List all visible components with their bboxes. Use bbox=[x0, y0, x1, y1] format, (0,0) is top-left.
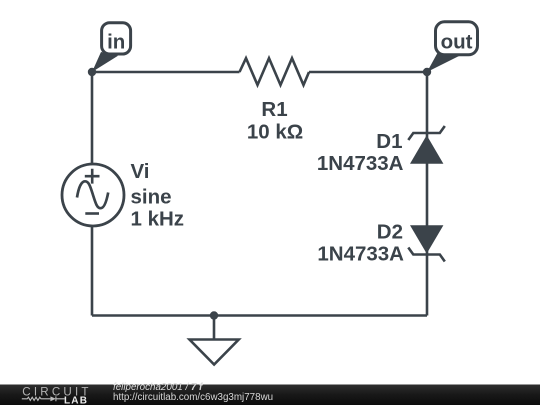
node flag "out" bbox=[427, 22, 478, 72]
svg-text:LAB: LAB bbox=[64, 396, 88, 405]
svg-text:1 kHz: 1 kHz bbox=[131, 208, 185, 231]
label D2 1N4733A bbox=[317, 221, 404, 266]
voltage source Vi bbox=[62, 164, 124, 226]
svg-text:in: in bbox=[107, 30, 125, 53]
svg-text:1N4733A: 1N4733A bbox=[317, 152, 404, 175]
svg-text:D1: D1 bbox=[376, 130, 402, 153]
wire: top horizontal left of R1 bbox=[92, 71, 240, 74]
wire: left vertical bbox=[91, 72, 94, 316]
svg-text:http://circuitlab.com/c6w3g3mj: http://circuitlab.com/c6w3g3mj778wu bbox=[113, 392, 273, 403]
wire: top horizontal right of R1 bbox=[309, 71, 427, 74]
svg-text:R1: R1 bbox=[261, 98, 287, 121]
label Vi sine 1 kHz bbox=[131, 160, 185, 231]
svg-text:10 kΩ: 10 kΩ bbox=[247, 121, 303, 144]
wire: bottom horizontal bbox=[92, 314, 427, 317]
resistor R1 bbox=[240, 58, 310, 85]
svg-text:D2: D2 bbox=[377, 221, 403, 244]
node flag "in" bbox=[92, 23, 131, 72]
wire: right vertical bbox=[426, 72, 429, 316]
CircuitLab logo bbox=[22, 385, 92, 406]
node junction dot ground bbox=[210, 311, 218, 319]
svg-text:out: out bbox=[441, 31, 473, 54]
zener diode D1 bbox=[408, 126, 445, 164]
ground bbox=[190, 316, 239, 365]
label D1 1N4733A bbox=[317, 130, 404, 175]
footer bar bbox=[0, 385, 540, 406]
svg-text:1N4733A: 1N4733A bbox=[317, 243, 404, 266]
node junction dot right bbox=[423, 68, 431, 76]
label R1 10 kΩ bbox=[247, 98, 303, 144]
footer credit text bbox=[113, 382, 273, 403]
svg-text:sine: sine bbox=[131, 186, 172, 209]
zener diode D2 bbox=[408, 225, 445, 261]
svg-text:Vi: Vi bbox=[131, 160, 150, 183]
node junction dot left bbox=[88, 68, 96, 76]
